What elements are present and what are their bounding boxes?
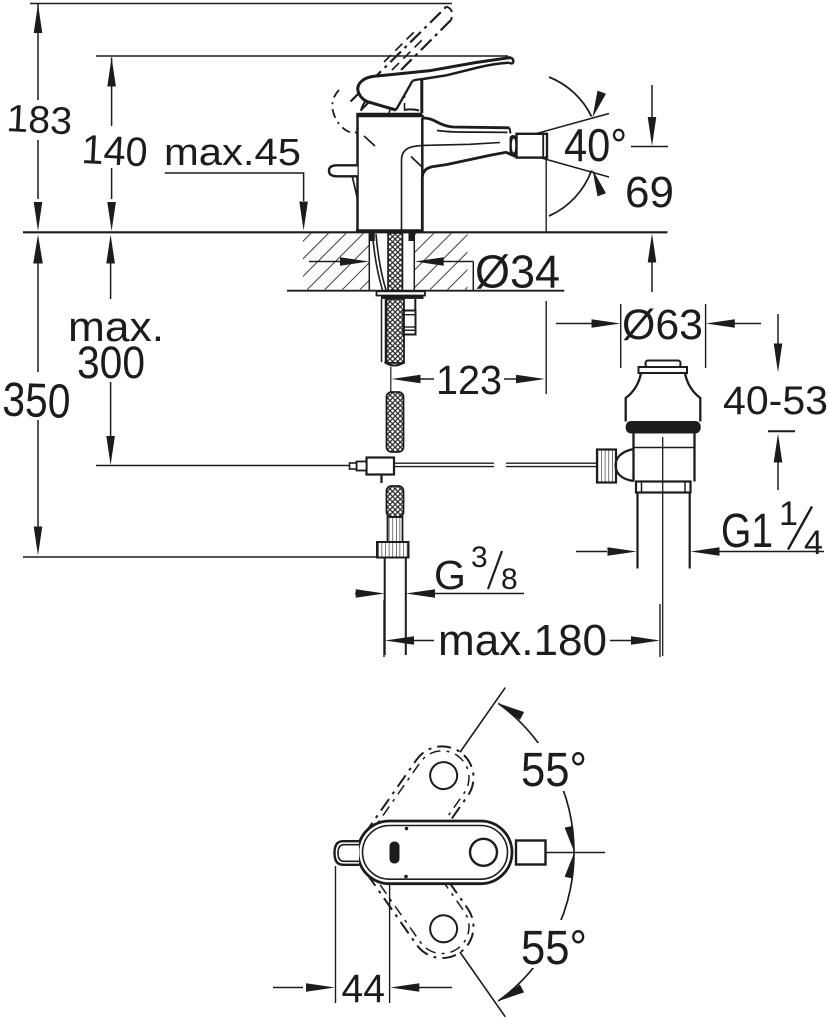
svg-text:Ø34: Ø34 — [475, 246, 560, 298]
svg-text:69: 69 — [625, 168, 674, 217]
svg-text:4: 4 — [804, 524, 823, 562]
svg-text:8: 8 — [501, 563, 518, 596]
svg-text:350: 350 — [2, 374, 72, 429]
svg-text:max.45: max.45 — [164, 132, 301, 174]
svg-text:G: G — [434, 552, 466, 598]
svg-text:Ø63: Ø63 — [622, 301, 703, 349]
svg-text:183: 183 — [6, 97, 74, 143]
svg-text:300: 300 — [77, 337, 145, 388]
svg-text:40-53: 40-53 — [723, 379, 828, 423]
svg-text:40°: 40° — [564, 119, 627, 171]
svg-text:1: 1 — [779, 495, 798, 533]
svg-text:55°: 55° — [521, 744, 587, 797]
svg-text:3: 3 — [471, 541, 488, 574]
svg-text:G1: G1 — [721, 505, 773, 558]
svg-text:max.180: max.180 — [438, 616, 607, 665]
svg-text:123: 123 — [436, 357, 502, 403]
svg-text:55°: 55° — [521, 922, 587, 975]
svg-text:44: 44 — [342, 967, 386, 1011]
svg-text:140: 140 — [81, 126, 149, 175]
